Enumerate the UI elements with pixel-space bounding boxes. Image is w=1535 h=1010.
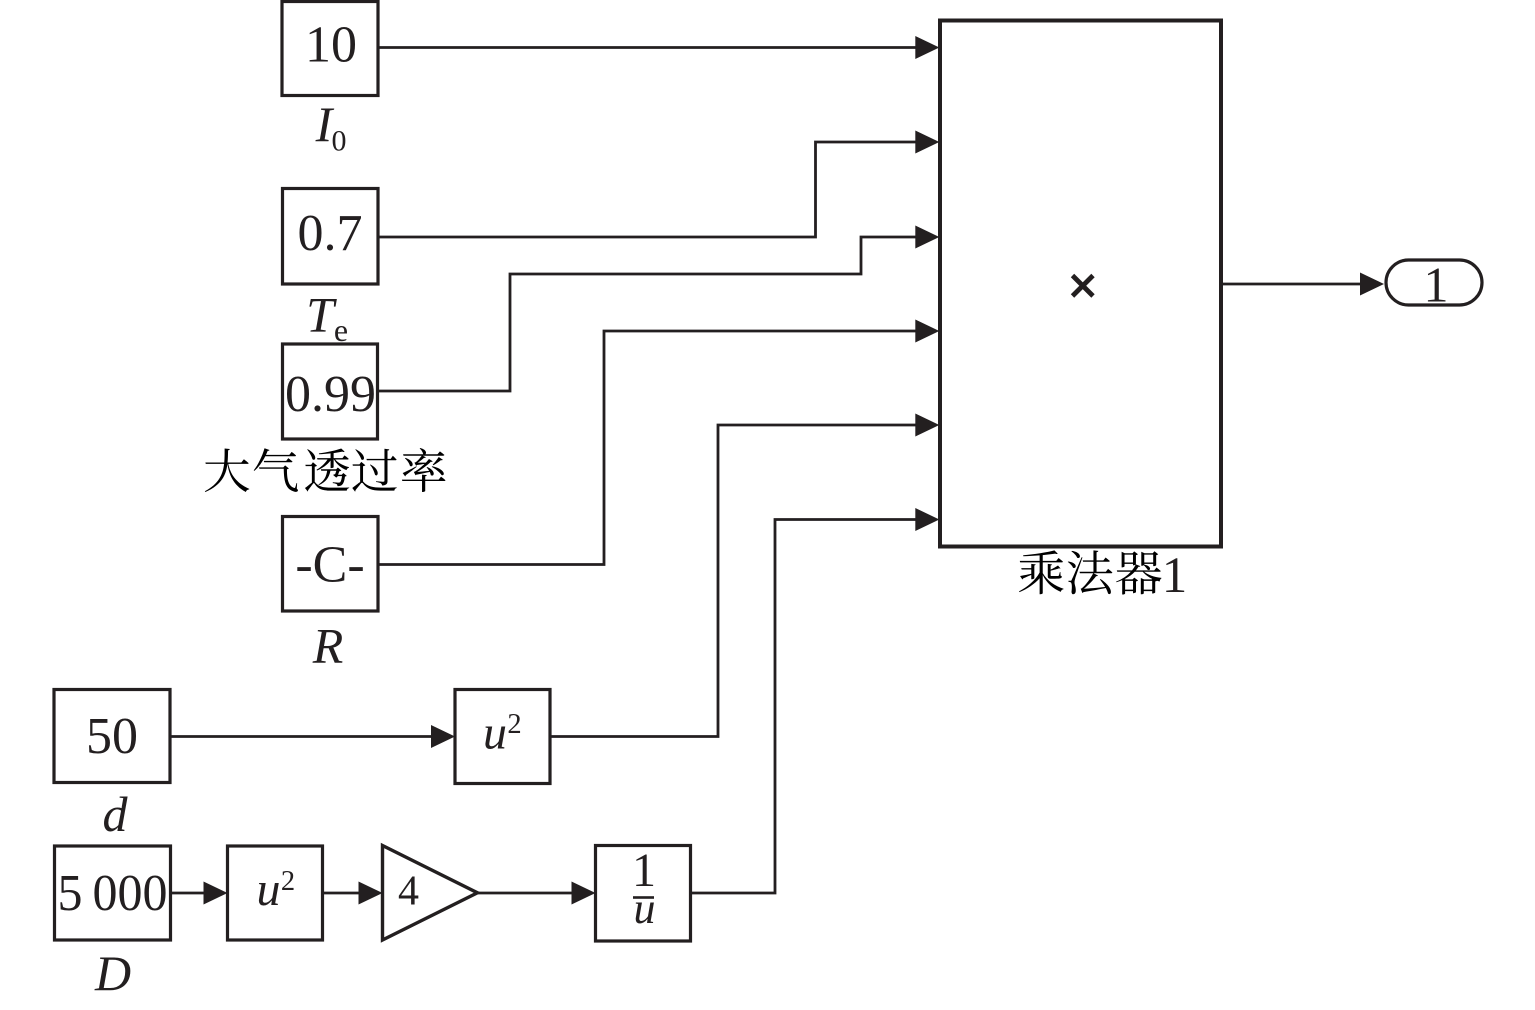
svg-text:e: e	[334, 312, 348, 348]
arrowhead input 1	[915, 36, 939, 59]
svg-text:u: u	[257, 863, 281, 916]
svg-text:1: 1	[1162, 548, 1188, 604]
svg-text:u: u	[483, 706, 507, 759]
svg-text:2: 2	[507, 709, 521, 740]
arrowhead into gain 4	[359, 882, 383, 905]
svg-text:0.7: 0.7	[298, 205, 363, 262]
wire u^2 upper to multiplier input 5	[550, 425, 917, 737]
arrowhead into output port 1	[1360, 273, 1384, 296]
constant block D value 5000	[55, 846, 171, 940]
product block multiplier 乘法器1	[940, 21, 1221, 547]
svg-text:T: T	[306, 287, 337, 343]
svg-text:10: 10	[305, 17, 357, 74]
wire 0.7 to multiplier input 2	[378, 142, 917, 237]
svg-text:4: 4	[398, 869, 419, 915]
svg-text:1: 1	[1424, 257, 1449, 313]
svg-text:5 000: 5 000	[58, 865, 168, 922]
svg-text:0: 0	[332, 125, 347, 158]
math block u^2 upper U1	[455, 690, 550, 784]
multiply symbol x in product block	[1073, 276, 1094, 297]
arrowhead input 2	[915, 131, 939, 154]
constant block R value -C-	[283, 517, 379, 612]
svg-text:u: u	[634, 884, 656, 933]
wire 1/u to multiplier input 6	[691, 520, 918, 894]
wire 0.99 to multiplier input 3	[378, 237, 918, 391]
svg-text:0.99: 0.99	[285, 366, 376, 423]
arrowhead input 3	[915, 226, 939, 249]
wire 10 to multiplier input 1	[378, 46, 917, 49]
arrowhead into u^2 upper	[431, 725, 455, 748]
svg-text:50: 50	[86, 708, 138, 765]
constant block d value 50	[54, 690, 170, 783]
svg-text:R: R	[312, 618, 344, 674]
output port oval 1	[1386, 260, 1482, 305]
label 乘法器1	[1019, 550, 1064, 594]
wire 50 to u^2 upper	[170, 735, 433, 738]
wire u^2 lower to gain 4	[323, 892, 361, 895]
svg-text:d: d	[103, 786, 129, 842]
label 大气透过率	[205, 449, 249, 493]
arrowhead into 1/u	[572, 882, 596, 905]
svg-text:2: 2	[281, 866, 295, 897]
wire -C- to multiplier input 4	[378, 331, 917, 565]
1/u fraction bar	[633, 896, 654, 899]
math block u^2 lower U2	[228, 846, 323, 940]
wire 5000 to u^2 lower	[171, 892, 207, 895]
constant block I0 value 10	[282, 2, 378, 96]
wire multiplier output to port 1	[1221, 283, 1362, 286]
arrowhead input 6	[915, 508, 939, 531]
arrowhead input 4	[915, 320, 939, 343]
constant block atmospheric transmittance value 0.99	[283, 344, 378, 439]
arrowhead into u^2 lower	[204, 882, 228, 905]
wire gain 4 to 1/u	[478, 892, 574, 895]
gain block value 4	[383, 846, 478, 941]
math block 1/u reciprocal	[596, 846, 691, 942]
svg-text:D: D	[94, 945, 131, 1001]
arrowhead input 5	[915, 414, 939, 437]
constant block Te value 0.7	[283, 189, 379, 285]
svg-text:-C-: -C-	[295, 537, 364, 594]
